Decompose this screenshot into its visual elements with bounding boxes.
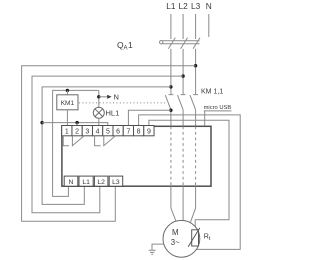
- svg-text:t: t: [209, 236, 211, 242]
- node dot L1 sense tap: [169, 85, 172, 88]
- hook under terminal 4: [95, 136, 101, 146]
- wire L2 pass-through dashed: [182, 126, 184, 186]
- wire L1 pass-through dashed: [170, 126, 172, 186]
- svg-text:A: A: [124, 46, 128, 52]
- node dot L3 sense tap: [194, 64, 197, 67]
- wire L1 phase above breaker: [170, 14, 172, 39]
- mechanical link KM1 dotted: [79, 102, 166, 104]
- wire motor earth lead: [152, 244, 164, 250]
- bottom terminal N: [64, 176, 78, 186]
- node dot KM1 coil tap: [66, 89, 69, 92]
- svg-text:3: 3: [85, 129, 89, 136]
- breaker QA1 linkage bars: [163, 41, 200, 44]
- node dot terminal 7 junction on L1: [169, 109, 172, 112]
- wire L2 phase above breaker: [182, 14, 184, 39]
- wire L1 contact to device: [170, 110, 172, 127]
- svg-text:5: 5: [106, 129, 110, 136]
- svg-text:L1: L1: [82, 179, 90, 186]
- wire HL1 to terminal 4: [98, 118, 100, 125]
- wire L3 phase breaker to contact: [195, 49, 197, 94]
- wire L3 contact to device: [195, 110, 197, 127]
- svg-text:9: 9: [147, 129, 151, 136]
- wire L2 sense loop to terminal L2: [32, 76, 183, 213]
- svg-text:M: M: [172, 228, 179, 237]
- wire KM1 coil top lead: [66, 90, 68, 94]
- svg-text:KM1: KM1: [61, 100, 75, 107]
- contactor coil KM1: [57, 95, 78, 110]
- svg-text:1: 1: [128, 40, 133, 50]
- node dot N arrow tap: [97, 95, 100, 98]
- bottom terminal L1: [79, 176, 93, 186]
- svg-text:L3: L3: [191, 1, 201, 11]
- node dot bus tap on L1 riser: [40, 121, 43, 124]
- svg-text:6: 6: [116, 129, 120, 136]
- wire KM1 coil to terminal 1: [66, 110, 68, 126]
- node dot L2 sense tap: [181, 74, 184, 77]
- wire terminal 7 to L1: [128, 110, 171, 125]
- label QA1: [117, 40, 133, 52]
- bottom terminal L2: [94, 176, 108, 186]
- micro USB leader: [204, 111, 206, 126]
- svg-text:L3: L3: [112, 179, 120, 186]
- circuit breaker QA1 pole 2: [181, 38, 188, 49]
- hook under terminal 1: [63, 136, 69, 146]
- wire N stub: [208, 14, 210, 37]
- motor M 3~: [163, 220, 200, 257]
- svg-text:4: 4: [96, 129, 100, 136]
- contactor contact KM1.1 pole 3: [190, 95, 198, 110]
- wire motor lead 1: [171, 186, 176, 222]
- breaker QA1 handle circle: [160, 41, 163, 44]
- thermistor Rt: [192, 230, 199, 246]
- wire bus to terminals 2 and 5: [42, 123, 108, 126]
- svg-text:L2: L2: [97, 179, 105, 186]
- hook terminals 2-3: [72, 136, 84, 146]
- wire terminal 9 to thermistor top: [149, 120, 229, 230]
- ground: [149, 250, 156, 254]
- svg-text:8: 8: [137, 129, 141, 136]
- svg-text:L1: L1: [166, 1, 176, 11]
- contactor contact KM1.1 pole 1: [165, 95, 173, 110]
- svg-text:KM 1,1: KM 1,1: [201, 88, 223, 95]
- svg-text:1: 1: [65, 129, 69, 136]
- svg-text:N: N: [206, 1, 212, 11]
- contactor contact KM1.1 pole 2: [178, 95, 186, 110]
- wire L1 phase breaker to contact: [170, 49, 172, 94]
- wire terminal 2 riser: [76, 123, 78, 126]
- wire N branch vertical: [98, 90, 100, 107]
- wire L3 pass-through dashed: [195, 126, 197, 186]
- node dot terminal 2 tap: [75, 121, 78, 124]
- arrow to N: [99, 96, 107, 98]
- svg-text:2: 2: [75, 129, 79, 136]
- svg-text:N: N: [114, 93, 119, 102]
- wire L3 phase above breaker: [195, 14, 197, 39]
- wire motor lead 2: [182, 186, 184, 220]
- hook terminals 5-6: [104, 136, 116, 146]
- lamp HL1: [93, 107, 104, 118]
- wire L2 phase breaker to contact: [182, 49, 184, 94]
- svg-text:HL1: HL1: [106, 109, 120, 118]
- circuit breaker QA1 pole 1: [168, 38, 175, 49]
- wire L1 sense loop to terminal L1: [42, 87, 171, 204]
- svg-text:micro USB: micro USB: [204, 105, 232, 111]
- svg-text:L2: L2: [178, 1, 188, 11]
- wire L3 sense loop to terminal L3: [22, 66, 196, 222]
- svg-text:3~: 3~: [171, 238, 180, 247]
- device box: [62, 126, 211, 186]
- wire terminal 8 to thermistor bottom: [139, 115, 241, 250]
- svg-text:7: 7: [126, 129, 130, 136]
- terminal row 1-9: [62, 126, 154, 136]
- wire motor lead 3: [191, 186, 196, 222]
- circuit breaker QA1 pole 3: [193, 38, 200, 49]
- wire N bus loop to terminal N: [53, 90, 99, 196]
- wire L2 contact to device: [182, 110, 184, 127]
- bottom terminal L3: [109, 176, 123, 186]
- svg-text:N: N: [69, 179, 74, 186]
